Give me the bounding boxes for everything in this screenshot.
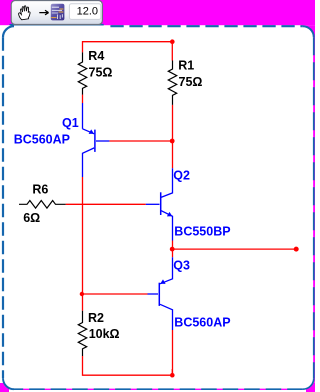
svg-text:R1: R1 [178,59,194,73]
svg-text:R4: R4 [88,49,104,63]
svg-text:R2: R2 [88,311,104,325]
svg-text:10kΩ: 10kΩ [89,327,120,341]
svg-text:Q2: Q2 [173,168,190,182]
svg-text:BC560AP: BC560AP [174,316,230,330]
svg-text:75Ω: 75Ω [89,65,113,79]
svg-text:75Ω: 75Ω [179,75,203,89]
svg-text:Q1: Q1 [62,116,79,130]
svg-text:BC560AP: BC560AP [14,132,70,146]
svg-text:BC550BP: BC550BP [174,225,230,239]
svg-text:12.0: 12.0 [77,6,98,18]
svg-text:Q3: Q3 [173,258,190,272]
svg-text:R6: R6 [32,182,48,196]
svg-text:6Ω: 6Ω [23,211,40,225]
